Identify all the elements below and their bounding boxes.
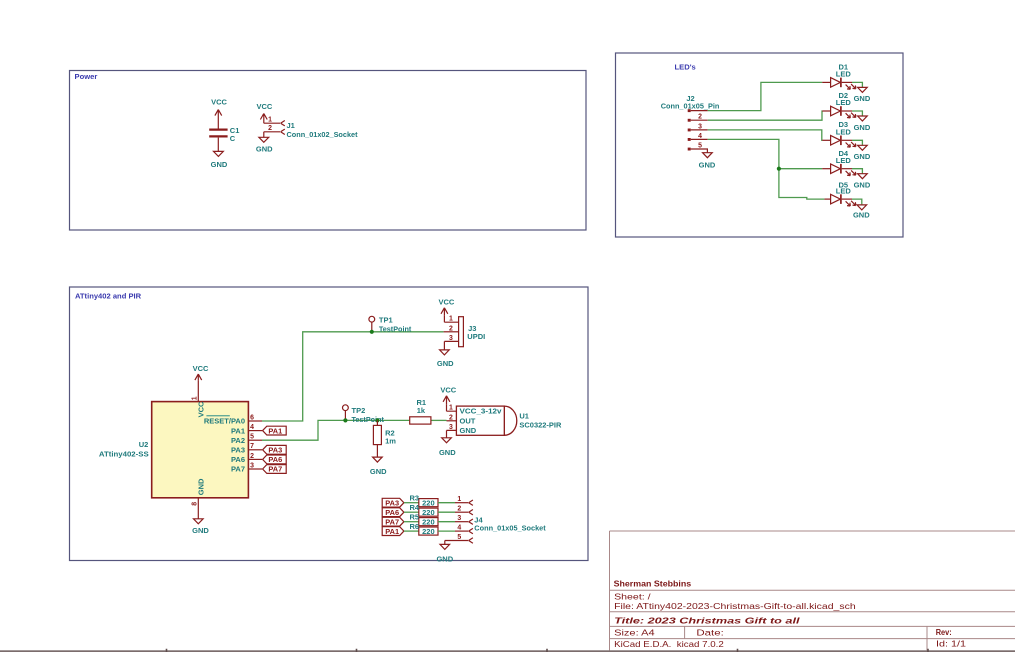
LED D2 [822, 91, 862, 118]
svg-text:GND: GND [854, 152, 871, 161]
LED D5 [824, 181, 861, 207]
section box ATtiny402 and PIR [70, 287, 589, 561]
connector J4 Conn_01x05_Socket [445, 496, 546, 544]
svg-text:1: 1 [192, 396, 199, 400]
ground below J4 pin 5 [436, 544, 453, 563]
ground after D3 [854, 145, 871, 161]
svg-text:PA3: PA3 [231, 446, 245, 455]
power symbol VCC at J3 pin 1 [438, 297, 454, 315]
svg-text:TestPoint: TestPoint [379, 324, 412, 333]
svg-text:GND: GND [211, 160, 228, 169]
page frame bottom border [0, 649, 1015, 652]
global label PA7 at J4 [382, 517, 404, 526]
svg-text:1: 1 [449, 405, 453, 412]
ground below C1 [211, 151, 228, 169]
svg-text:2: 2 [449, 414, 453, 421]
MCU U2 ATtiny402-SS [99, 380, 262, 519]
svg-text:PA6: PA6 [268, 455, 282, 464]
svg-text:PA6: PA6 [231, 455, 245, 464]
svg-text:J1: J1 [287, 121, 295, 130]
global label PA1 at J4 [382, 527, 404, 536]
ground after D2 [854, 116, 871, 132]
svg-text:GND: GND [854, 181, 871, 190]
svg-text:KiCad E.D.A. kicad 7.0.2: KiCad E.D.A. kicad 7.0.2 [614, 639, 724, 649]
svg-text:LED: LED [836, 69, 852, 78]
svg-text:VCC_3-12v: VCC_3-12v [460, 407, 503, 416]
svg-text:ATtiny402-SS: ATtiny402-SS [99, 450, 149, 459]
svg-text:Id: 1/1: Id: 1/1 [936, 639, 966, 649]
U2 pin 4 PA1 [248, 430, 262, 432]
connector J3 UPDI [444, 316, 486, 350]
svg-text:LED: LED [836, 98, 852, 107]
svg-text:2: 2 [449, 325, 453, 332]
power symbol VCC at C1 [211, 97, 227, 130]
svg-text:5: 5 [457, 534, 461, 541]
LED D3 [822, 120, 862, 147]
svg-text:GND: GND [436, 554, 453, 563]
resistor R1 1k [410, 398, 431, 424]
svg-text:R4: R4 [410, 503, 420, 512]
PIR sensor U1 SC0322-PIR [447, 404, 562, 438]
svg-text:3: 3 [698, 123, 702, 130]
svg-text:U2: U2 [139, 440, 149, 449]
svg-text:R5: R5 [410, 512, 420, 521]
svg-text:2: 2 [457, 506, 461, 513]
svg-text:1: 1 [449, 316, 453, 323]
power symbol VCC at J1 [256, 102, 272, 123]
LED D4 [822, 149, 862, 176]
svg-text:4: 4 [457, 525, 461, 532]
wire R1 to U1 OUT [431, 419, 447, 421]
ground below U2 [192, 519, 209, 535]
ground below R2 [370, 457, 387, 476]
svg-text:LED: LED [836, 186, 852, 195]
wire R3 to J4 pin1 [438, 502, 455, 504]
wire junction to D5 [779, 169, 825, 199]
svg-text:3: 3 [250, 462, 254, 469]
svg-text:3: 3 [449, 424, 453, 431]
svg-text:PA7: PA7 [268, 465, 282, 474]
svg-text:5: 5 [698, 142, 702, 149]
connector J1 Conn_01x02_Socket [264, 117, 358, 139]
ground below J1 [256, 137, 273, 153]
svg-text:VCC: VCC [440, 386, 456, 395]
svg-text:GND: GND [460, 426, 477, 435]
global label PA3 at U2 [263, 445, 287, 454]
svg-text:GND: GND [439, 448, 456, 457]
global label PA6 at U2 [263, 455, 287, 464]
svg-text:GND: GND [853, 211, 870, 220]
ground below J3 [437, 350, 454, 368]
svg-text:7: 7 [250, 443, 254, 450]
U2 pin 2 PA6 [248, 458, 262, 460]
LED D1 [822, 62, 862, 89]
section box Power [70, 71, 587, 231]
svg-text:TP2: TP2 [352, 406, 366, 415]
svg-text:LED: LED [836, 156, 852, 165]
svg-text:PA7: PA7 [231, 465, 245, 474]
svg-text:1m: 1m [385, 437, 396, 446]
svg-text:R6: R6 [410, 522, 420, 531]
svg-text:PA3: PA3 [268, 446, 282, 455]
svg-text:3: 3 [449, 335, 453, 342]
wire junction at R2 node [375, 418, 379, 422]
resistor R3 220 [410, 493, 439, 507]
svg-text:Conn_01x05_Socket: Conn_01x05_Socket [474, 524, 546, 533]
svg-text:220: 220 [422, 518, 435, 527]
U2 pin 1 VCC top [197, 380, 199, 401]
U2 pin 3 PA7 [248, 468, 262, 470]
ground after D5 [853, 205, 870, 220]
connector J2 Conn_01x05_Pin [661, 94, 720, 153]
wire PA3 label to R3 [404, 502, 419, 504]
svg-text:VCC: VCC [438, 297, 454, 306]
svg-text:220: 220 [422, 527, 435, 536]
wire PA6 label to R4 [404, 511, 419, 513]
wire PA7 label to R5 [404, 521, 419, 523]
wire PA1 label to R6 [404, 530, 419, 532]
svg-text:GND: GND [192, 526, 209, 535]
svg-text:PA1: PA1 [231, 426, 245, 435]
svg-text:2: 2 [698, 114, 702, 121]
svg-text:Power: Power [75, 72, 98, 81]
svg-text:1: 1 [268, 117, 272, 124]
svg-text:1k: 1k [417, 406, 426, 415]
svg-text:File: ATtiny402-2023-Christmas: File: ATtiny402-2023-Christmas-Gift-to-a… [614, 601, 856, 611]
global label PA3 at J4 [382, 498, 404, 507]
svg-text:Conn_01x02_Socket: Conn_01x02_Socket [287, 130, 358, 139]
test point TP1 [369, 316, 412, 334]
resistor R2 1m [373, 420, 396, 457]
svg-text:VCC: VCC [256, 102, 272, 111]
svg-text:RESET/PA0: RESET/PA0 [204, 417, 245, 426]
wire U2 pin6 to J3 pin2 [262, 332, 444, 421]
svg-text:SC0322-PIR: SC0322-PIR [519, 421, 562, 430]
svg-text:PA2: PA2 [231, 436, 245, 445]
wire U2 PA2 to R1 [262, 420, 410, 440]
svg-text:Rev:: Rev: [936, 627, 952, 637]
U2 pin 8 GND bottom [197, 498, 199, 519]
svg-text:PA6: PA6 [385, 508, 399, 517]
global label PA1 at U2 [263, 426, 287, 435]
U2 pin 5 PA2 [248, 439, 262, 441]
wire J2 pin1 to D1 [708, 82, 823, 110]
wire R6 to J4 pin4 [438, 530, 455, 532]
svg-text:1: 1 [457, 496, 461, 503]
wire R4 to J4 pin2 [438, 511, 455, 513]
svg-text:GND: GND [370, 467, 387, 476]
title block frame [610, 531, 1015, 650]
svg-text:VCC: VCC [193, 364, 209, 373]
ground below J2 pin 5 [699, 153, 716, 170]
svg-text:C: C [230, 134, 236, 143]
wire J2 pin3 to D3 [708, 130, 823, 140]
svg-text:6: 6 [250, 414, 254, 421]
svg-text:PA3: PA3 [385, 498, 399, 507]
svg-text:GND: GND [854, 123, 871, 132]
svg-text:VCC: VCC [196, 401, 205, 417]
svg-text:Date:: Date: [696, 628, 723, 638]
svg-text:LED: LED [836, 127, 852, 136]
svg-text:2: 2 [250, 453, 254, 460]
wire J2 pin2 to D2 [708, 111, 823, 120]
resistor R4 220 [410, 503, 439, 517]
svg-text:PA1: PA1 [385, 527, 399, 536]
svg-text:PA1: PA1 [268, 426, 282, 435]
svg-text:GND: GND [437, 359, 454, 368]
svg-text:GND: GND [196, 478, 205, 495]
svg-text:OUT: OUT [460, 416, 476, 425]
ground after D4 [854, 174, 871, 190]
svg-text:GND: GND [854, 94, 871, 103]
svg-text:TP1: TP1 [379, 316, 393, 325]
wire junction at D4/D5 node [777, 167, 781, 171]
svg-text:UPDI: UPDI [467, 332, 485, 341]
wire J2 pin4 to junction to D4 [708, 139, 823, 168]
U2 pin 6 RESET/PA0 [248, 420, 262, 422]
svg-text:LED's: LED's [675, 63, 696, 72]
resistor R6 220 [410, 522, 439, 536]
svg-text:PA7: PA7 [385, 517, 399, 526]
test point TP2 [343, 405, 385, 424]
svg-text:VCC: VCC [211, 97, 227, 106]
global label PA6 at J4 [382, 508, 404, 517]
power symbol VCC at U1 pin 1 [440, 386, 456, 405]
resistor R5 220 [410, 512, 439, 526]
svg-text:Size: A4: Size: A4 [614, 628, 655, 638]
svg-text:220: 220 [422, 508, 435, 517]
capacitor C1 [209, 126, 239, 151]
svg-text:2: 2 [268, 125, 272, 132]
svg-text:4: 4 [698, 133, 702, 140]
svg-text:ATtiny402 and PIR: ATtiny402 and PIR [75, 292, 142, 301]
U2 pin 7 PA3 [248, 449, 262, 451]
svg-text:Title: 2023 Christmas Gift to: Title: 2023 Christmas Gift to all [614, 615, 800, 625]
svg-text:GND: GND [699, 160, 716, 169]
ground after D1 [854, 87, 871, 103]
svg-text:TestPoint: TestPoint [352, 415, 385, 424]
svg-text:5: 5 [250, 434, 254, 441]
section box LED's [616, 53, 904, 237]
svg-text:Sherman Stebbins: Sherman Stebbins [614, 579, 692, 589]
svg-text:4: 4 [250, 424, 254, 431]
svg-text:R3: R3 [410, 493, 420, 502]
svg-text:3: 3 [457, 515, 461, 522]
svg-text:U1: U1 [519, 411, 529, 420]
power symbol VCC at U2 pin 1 [193, 364, 209, 380]
global label PA7 at U2 [263, 465, 287, 474]
wire R5 to J4 pin3 [438, 521, 455, 523]
svg-text:8: 8 [192, 502, 199, 506]
ground below U1 [439, 438, 456, 457]
svg-text:220: 220 [422, 499, 435, 508]
svg-text:GND: GND [256, 145, 273, 154]
